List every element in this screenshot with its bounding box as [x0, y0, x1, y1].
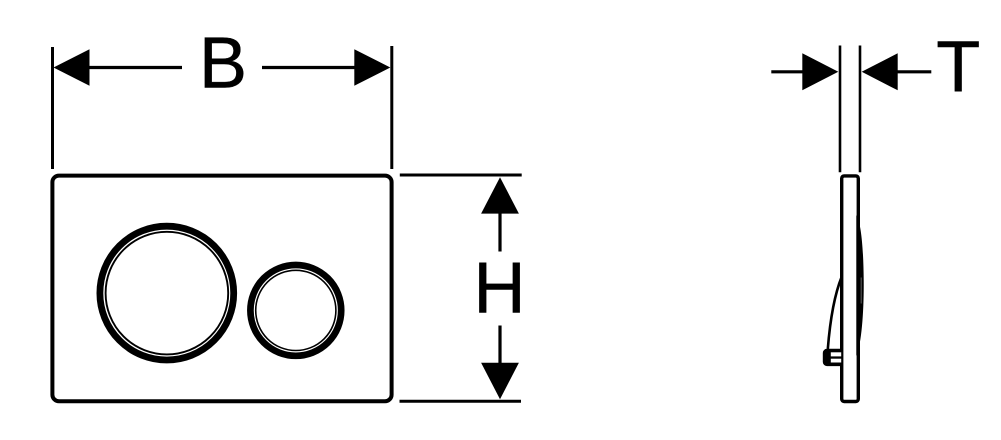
- dimension B left arrowhead: [54, 49, 90, 85]
- dimension T left arrowhead: [802, 53, 838, 90]
- svg-text:B: B: [199, 24, 247, 104]
- dimension H line bottom segment: [498, 326, 501, 365]
- side view mounting frame diagonal: [828, 277, 842, 350]
- side view mounting clip: [823, 349, 843, 366]
- dimension H line top segment: [498, 212, 501, 252]
- large flush button outer ring: [100, 226, 234, 360]
- dimension T right arrowhead: [862, 53, 898, 90]
- small flush button inner circle: [256, 270, 336, 350]
- dimension T left extension line: [839, 46, 842, 173]
- small flush button outer ring: [250, 265, 341, 356]
- flush plate side view outline: [842, 176, 859, 402]
- flush plate front view outline: [52, 176, 391, 402]
- side view button bulge: [856, 216, 863, 356]
- dimension B left extension line: [51, 47, 54, 169]
- dimension B right arrowhead: [354, 49, 390, 85]
- dimension B line left segment: [88, 66, 182, 69]
- dimension T right extension line: [859, 46, 862, 173]
- svg-text:T: T: [936, 27, 980, 107]
- dimension H bottom arrowhead: [481, 363, 519, 399]
- dimension H top extension line: [400, 174, 522, 177]
- svg-text:H: H: [474, 249, 526, 329]
- dimension H top arrowhead: [481, 177, 519, 213]
- side view mounting clip upper slot: [831, 352, 841, 356]
- dimension T line right segment: [897, 70, 931, 73]
- dimension T line left segment: [771, 70, 803, 73]
- side view mounting clip lower slot: [831, 359, 841, 363]
- dimension B right extension line: [390, 46, 393, 169]
- dimension B line right segment: [262, 66, 356, 69]
- dimension H bottom extension line: [400, 400, 522, 403]
- side view button slit highlight: [860, 278, 862, 304]
- large flush button inner circle: [106, 232, 229, 355]
